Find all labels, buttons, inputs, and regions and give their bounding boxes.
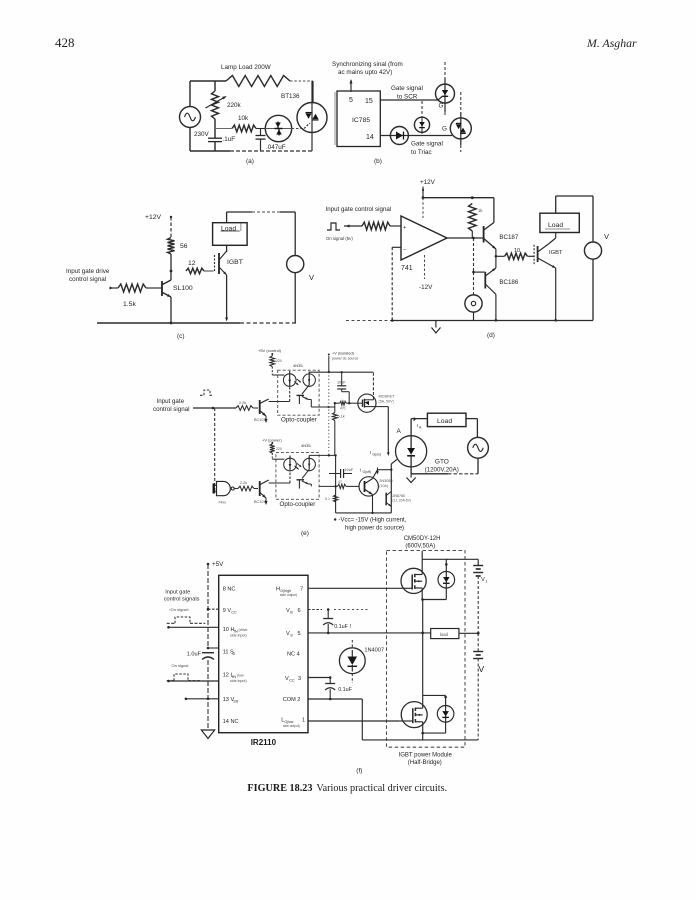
wire to triac top	[290, 80, 313, 82]
svg-text:V: V	[309, 273, 314, 282]
svg-text:G(on): G(on)	[373, 453, 381, 457]
svg-text:9 V: 9 V	[223, 608, 232, 614]
source-diode junction top	[422, 599, 446, 601]
svg-text:Input gate drive: Input gate drive	[66, 268, 110, 275]
resistor led bottom	[270, 444, 275, 453]
svg-text:I: I	[360, 468, 361, 473]
svg-text:G: G	[442, 126, 447, 133]
wire bc186 emitter	[495, 294, 497, 320]
nand input dashed line	[214, 408, 216, 492]
svg-text:(b): (b)	[374, 158, 382, 165]
svg-text:428: 428	[55, 35, 75, 50]
svg-text:+5V: +5V	[212, 561, 224, 568]
IGBT c	[226, 245, 228, 252]
svg-text:4N35: 4N35	[301, 443, 311, 448]
ground arrow bottom	[265, 498, 267, 501]
svg-text:(e): (e)	[301, 530, 309, 537]
svg-text:SS: SS	[233, 700, 239, 704]
svg-text:I: I	[417, 423, 418, 429]
ac source e	[468, 437, 489, 458]
wire triac to rail	[311, 133, 313, 152]
svg-text:Gate signal: Gate signal	[411, 141, 443, 148]
cathode wire and bottom rail e	[410, 467, 412, 474]
bottom rail f	[362, 739, 478, 741]
svg-text:Lamp Load 200W: Lamp Load 200W	[221, 64, 271, 71]
pulse waveform 2 f	[167, 680, 174, 682]
svg-text:G(off): G(off)	[363, 470, 371, 474]
resistor 1.5k	[146, 287, 162, 289]
load resistor box f	[431, 629, 459, 639]
svg-text:+5V (control): +5V (control)	[258, 348, 282, 353]
svg-text:2.2k: 2.2k	[240, 481, 247, 485]
gate return vertical e	[390, 464, 392, 513]
svg-text:74xx: 74xx	[218, 501, 226, 505]
svg-text:10: 10	[514, 248, 520, 254]
svg-text:Load: Load	[221, 226, 236, 233]
svg-text:to Triac: to Triac	[411, 149, 432, 156]
svg-text:BC107: BC107	[254, 500, 266, 504]
wire pin5 Vs f	[308, 632, 431, 634]
transistor BC186	[473, 238, 475, 272]
phototransistor 1	[303, 374, 315, 386]
GTO gate stub	[391, 460, 397, 464]
svg-text:side output): side output)	[283, 724, 300, 728]
svg-text:7: 7	[300, 587, 303, 593]
wire load to source e	[466, 418, 477, 420]
LED 1	[283, 374, 296, 387]
resistor 5.1k top	[334, 403, 336, 412]
resistor 10	[496, 255, 505, 257]
svg-text:power dc source: power dc source	[332, 357, 358, 361]
wire rc node	[215, 128, 232, 130]
svg-text:D: D	[233, 652, 236, 656]
svg-text:2N6760: 2N6760	[392, 494, 405, 498]
svg-text:BC107: BC107	[254, 418, 266, 422]
svg-text:-Vcc= -15V (High current,: -Vcc= -15V (High current,	[339, 518, 407, 524]
ac source 230V	[180, 107, 201, 128]
svg-text:(1J, 20A-6V): (1J, 20A-6V)	[392, 499, 411, 503]
load box e	[427, 413, 466, 426]
V1 supply right	[446, 558, 478, 560]
svg-text:0.1uF: 0.1uF	[338, 687, 352, 693]
transistor drive bottom	[259, 481, 261, 496]
wire pin12 f	[168, 680, 219, 682]
resistor 56	[168, 238, 175, 255]
V supply battery f	[477, 633, 479, 651]
diode small	[414, 117, 429, 132]
descending +V verticals	[328, 372, 330, 455]
wire collector to LED	[269, 401, 290, 403]
svg-text:10 H: 10 H	[223, 627, 235, 633]
module dashed box f	[387, 551, 466, 748]
supply vertical line f	[207, 564, 209, 648]
mosfet source to gto gate	[373, 406, 389, 408]
arrow into pin 5	[350, 80, 352, 92]
bottom rail a	[189, 128, 191, 152]
svg-text:5.1: 5.1	[325, 497, 330, 501]
svg-text:Opto-coupler: Opto-coupler	[281, 417, 317, 424]
svg-text:COM 2: COM 2	[283, 697, 301, 703]
svg-text:MOSFET: MOSFET	[379, 395, 396, 399]
opamp power dashes	[422, 198, 424, 218]
GTO symbol	[407, 448, 415, 455]
svg-text:Input gate: Input gate	[157, 398, 185, 405]
bottom rail e lower	[336, 512, 392, 514]
phototransistor 2	[303, 458, 315, 470]
top rail link f	[422, 558, 447, 560]
svg-text:1: 1	[302, 718, 305, 724]
svg-text:10k: 10k	[238, 115, 249, 122]
SCR	[436, 84, 455, 103]
svg-text:+12V: +12V	[420, 179, 436, 186]
load box d	[540, 213, 579, 232]
svg-text:47: 47	[338, 480, 342, 484]
wire diac to gate	[292, 128, 304, 130]
svg-text:BT136: BT136	[281, 93, 300, 100]
IGBT d	[533, 245, 535, 264]
base resistor npn power	[319, 485, 337, 487]
resistor pullup d	[469, 203, 477, 231]
top mosfet f	[401, 568, 426, 593]
svg-text:3: 3	[298, 676, 301, 682]
wire load top	[226, 212, 228, 223]
pulse symbol d	[327, 223, 340, 230]
wire V to rail	[294, 273, 296, 323]
wire to node	[170, 254, 172, 280]
svg-text:220: 220	[276, 359, 282, 363]
svg-text:I: I	[370, 450, 371, 455]
svg-text:10uF: 10uF	[345, 468, 354, 472]
wire to opamp input	[344, 225, 362, 227]
wire pin9 dashed f	[208, 608, 219, 610]
svg-text:1N4007: 1N4007	[364, 648, 384, 654]
svg-text:8 NC: 8 NC	[223, 587, 236, 593]
wire photo collector to rail	[308, 371, 310, 374]
svg-text:(a): (a)	[246, 158, 254, 165]
npn power transistor circle	[359, 477, 378, 496]
svg-text:(drive: (drive	[239, 628, 248, 632]
wire to diac	[256, 128, 265, 130]
svg-text:(Half-Bridge): (Half-Bridge)	[408, 760, 442, 766]
inverting input wire	[392, 246, 401, 248]
svg-text:−: −	[403, 247, 406, 253]
light arrows 2	[295, 466, 299, 469]
cap 0.1uF 2 f	[329, 678, 331, 684]
svg-text:Load: Load	[548, 222, 563, 229]
wire pin1 Lo to bottom mosfet gate	[308, 720, 399, 722]
node bc	[495, 249, 497, 256]
svg-text:14 NC: 14 NC	[223, 719, 239, 725]
svg-text:On signal (5v): On signal (5v)	[326, 236, 353, 241]
wire pin11 f	[208, 647, 219, 649]
svg-text:BC187: BC187	[499, 234, 518, 241]
svg-text:5: 5	[298, 631, 301, 637]
resistor 5.1 bottom	[333, 495, 337, 502]
svg-text:control signal: control signal	[153, 406, 189, 413]
ground triangle f	[201, 730, 214, 739]
IC785 box	[337, 91, 380, 147]
svg-text:IGBT power Module: IGBT power Module	[399, 753, 453, 759]
potentiometer 220k	[212, 91, 219, 119]
aux transistor 2N6760	[385, 493, 387, 506]
wire load to V rail f	[459, 632, 478, 634]
svg-text:Synchronizing sinal (from: Synchronizing sinal (from	[332, 61, 403, 68]
svg-text:M. Asghar: M. Asghar	[586, 36, 637, 50]
svg-text:S: S	[290, 634, 293, 638]
phototransistor emitter wire 1	[310, 406, 312, 408]
svg-text:230V: 230V	[194, 131, 210, 138]
LED 2	[284, 458, 297, 471]
wire photo collector 2 to +V rail	[308, 454, 310, 457]
svg-text:Input gate control signal: Input gate control signal	[326, 206, 392, 213]
svg-text:control signals: control signals	[164, 597, 200, 603]
svg-text:FIGURE 18.23: FIGURE 18.23	[247, 783, 312, 794]
svg-text:5: 5	[349, 97, 353, 104]
svg-text:CM50DY-12H: CM50DY-12H	[404, 536, 441, 542]
output wire d	[447, 237, 484, 239]
svg-text:1.5k: 1.5k	[123, 301, 136, 308]
label -Vcc	[334, 518, 336, 520]
svg-text:Gate signal: Gate signal	[391, 85, 423, 92]
pulse waveform 1 f	[167, 622, 175, 624]
svg-text:.047uF: .047uF	[266, 144, 286, 151]
svg-text:to SCR: to SCR	[397, 94, 418, 101]
wire IGBT emitter d	[555, 268, 557, 320]
emitter wire npn power	[372, 495, 374, 513]
wire V to rail d	[592, 259, 594, 320]
mosfet drain wire	[372, 399, 375, 401]
wire pin7 to top mosfet gate	[308, 587, 399, 589]
op-amp 741	[401, 216, 447, 260]
svg-text:1.0uF: 1.0uF	[187, 652, 202, 658]
svg-text:0.1uF !: 0.1uF !	[334, 624, 351, 630]
transistor drive top	[259, 400, 261, 414]
wire IGBT collector to load	[549, 238, 556, 244]
wire collector to LED 2	[269, 482, 290, 484]
resistor led top	[270, 356, 275, 367]
svg-text:+: +	[403, 225, 406, 231]
diac	[265, 115, 291, 141]
svg-text:On signal: On signal	[172, 663, 189, 668]
svg-text:BC186: BC186	[499, 279, 518, 286]
svg-text:14: 14	[366, 134, 374, 141]
transistor BC187	[483, 226, 485, 243]
top rail d	[423, 197, 494, 199]
svg-text:load: load	[440, 632, 449, 637]
wire pot to cap	[214, 119, 216, 138]
svg-text:(600V,50A): (600V,50A)	[405, 544, 435, 550]
wire to led anode	[271, 367, 273, 375]
resistor input d	[362, 222, 390, 230]
svg-text:2N3055: 2N3055	[379, 479, 392, 483]
vertical to base node 2	[335, 455, 337, 513]
svg-text:(c): (c)	[177, 333, 185, 340]
transistor SL100	[161, 281, 163, 296]
svg-text:SL100: SL100	[173, 285, 193, 292]
svg-text:V: V	[479, 664, 485, 674]
svg-text:B: B	[290, 611, 293, 615]
capacitor .1uF	[208, 137, 222, 139]
svg-text:+V (isolated): +V (isolated)	[332, 351, 355, 356]
wire IGBT emitter to rail	[226, 275, 228, 318]
svg-text:(5A, 50V): (5A, 50V)	[379, 400, 394, 404]
svg-text:Various practical driver circu: Various practical driver circuits.	[316, 783, 447, 794]
anode wire and IA	[410, 419, 412, 436]
wire source top	[189, 81, 191, 107]
svg-text:high power dc source): high power dc source)	[345, 526, 404, 532]
wire load top d	[555, 196, 557, 213]
ground rail c	[97, 322, 240, 324]
svg-text:Load: Load	[437, 418, 452, 425]
wire junction to pot	[214, 81, 216, 91]
light arrows 1	[294, 382, 298, 385]
wire 12V to resistor	[170, 217, 172, 238]
svg-text:15: 15	[365, 98, 373, 105]
svg-text:(d): (d)	[487, 332, 495, 339]
svg-text:Opto-coupler: Opto-coupler	[280, 501, 316, 508]
voltmeter V	[287, 256, 304, 273]
svg-text:.1uF: .1uF	[223, 136, 236, 143]
svg-text:6: 6	[298, 608, 301, 614]
input node e	[193, 407, 236, 409]
mid link bottom	[423, 694, 446, 696]
svg-text:220k: 220k	[227, 102, 242, 109]
pulse symbol e	[200, 390, 213, 395]
current source circle d	[473, 272, 475, 295]
bottom rail d	[346, 320, 392, 322]
svg-text:ac mains upto 42V): ac mains upto 42V)	[338, 69, 392, 76]
top mosfet drain wire	[421, 551, 423, 559]
svg-text:IR2110: IR2110	[251, 738, 277, 747]
ground arrow top	[265, 416, 267, 419]
svg-text:4N35: 4N35	[293, 363, 303, 368]
svg-text:NC 4: NC 4	[287, 652, 300, 658]
wire pin2 COM f	[308, 698, 362, 700]
svg-text:side input): side input)	[230, 634, 247, 638]
svg-text:-12V: -12V	[419, 284, 433, 291]
wire pin6 Vb dashed	[308, 609, 322, 611]
wire pin14 to triac gate	[380, 135, 452, 137]
svg-text:470: 470	[340, 407, 346, 411]
+V isolated node	[328, 371, 330, 373]
collector wire npn power	[373, 470, 378, 479]
capacitor .047uF	[260, 129, 262, 136]
ground symbol d	[435, 321, 437, 328]
svg-text:+V (power): +V (power)	[262, 438, 282, 443]
svg-text:CC: CC	[289, 679, 295, 683]
svg-text:56: 56	[180, 243, 188, 250]
wire pin3 Vcc f	[308, 677, 330, 679]
nand gate	[217, 481, 231, 495]
svg-text:side input): side input)	[230, 679, 247, 683]
svg-text:CC: CC	[231, 611, 237, 615]
mosfet circle top e	[358, 394, 376, 412]
source-diode junction bottom	[423, 732, 446, 734]
svg-text:A: A	[397, 428, 402, 435]
half-bridge mid vertical	[422, 600, 424, 633]
gto cathode down arrow	[410, 474, 412, 478]
svg-text:IGBT: IGBT	[227, 259, 243, 266]
svg-text:12: 12	[188, 260, 196, 267]
bootstrap cap 0.1uF	[327, 610, 329, 619]
svg-text:GTO: GTO	[435, 459, 449, 466]
wire pin15 to SCR gate	[380, 99, 438, 101]
freewheel diode top	[438, 571, 455, 588]
svg-text:side output): side output)	[280, 593, 297, 597]
wire pin10 f	[168, 626, 219, 628]
load box c	[213, 223, 248, 246]
svg-text:741: 741	[401, 265, 413, 272]
svg-text:Input gate: Input gate	[165, 590, 190, 596]
diode	[390, 127, 408, 145]
svg-text:2.2k: 2.2k	[239, 401, 246, 405]
svg-text:+12V: +12V	[145, 214, 162, 221]
svg-text:(low: (low	[237, 674, 244, 678]
svg-text:5.1k: 5.1k	[338, 415, 345, 419]
voltmeter V d	[584, 242, 601, 259]
svg-text:(1200V,20A): (1200V,20A)	[425, 467, 459, 474]
svg-text:IC785: IC785	[352, 117, 370, 124]
svg-text:(f): (f)	[356, 768, 362, 775]
wire pin13 f	[185, 698, 218, 700]
resistor lamp load	[226, 76, 290, 87]
mosfet gate resistor top	[335, 402, 340, 404]
svg-text:(10A): (10A)	[379, 484, 388, 488]
svg-text:G: G	[439, 103, 444, 110]
svg-text:IGBT: IGBT	[549, 250, 563, 256]
svg-text:V: V	[604, 232, 609, 241]
IR2110 box	[219, 575, 308, 732]
freewheel diode bottom	[437, 706, 454, 723]
bottom mosfet f	[401, 702, 427, 728]
svg-text:control signal: control signal	[69, 276, 106, 283]
svg-text:‹On signal›: ‹On signal›	[169, 607, 189, 612]
svg-text:220: 220	[276, 447, 282, 451]
wire emitter to rail	[170, 297, 172, 323]
GTO circle	[396, 436, 427, 467]
